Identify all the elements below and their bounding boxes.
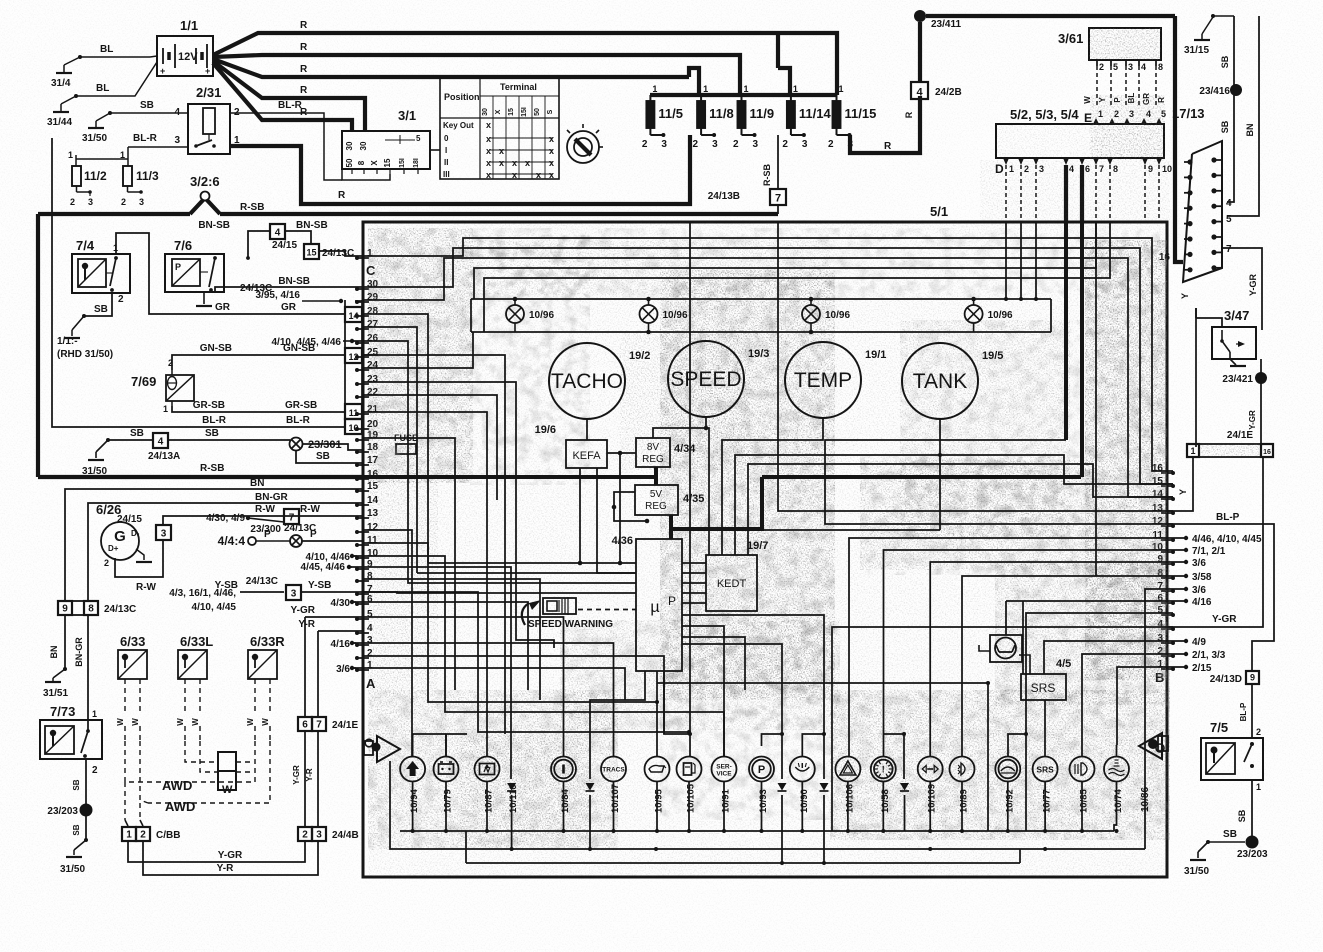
wire SB to 31/50 bl: [60, 816, 88, 875]
wire pin7L int: [363, 592, 691, 734]
svg-text:P: P: [758, 764, 765, 776]
svg-text:1: 1: [652, 84, 657, 94]
svg-text:23/203: 23/203: [47, 806, 78, 817]
svg-text:GN-SB: GN-SB: [200, 343, 232, 354]
bus dots: [510, 847, 1048, 851]
module KEDT 19/7: [706, 540, 768, 611]
wire Y left loop: [1180, 293, 1196, 447]
wire BL-R pin20: [202, 415, 363, 427]
lamp feed jogs at top: [413, 732, 1117, 779]
svg-text:9: 9: [62, 604, 68, 615]
svg-text:3/95, 4/16: 3/95, 4/16: [256, 290, 301, 301]
svg-text:R-W: R-W: [300, 504, 321, 515]
wire GN-SB pin25: [172, 343, 378, 370]
svg-text:10/86: 10/86: [1140, 787, 1151, 812]
3/61 pin 8: [1156, 60, 1163, 108]
sensor 6/33L: [178, 634, 213, 679]
wire 3/1 outline: [342, 169, 390, 180]
svg-text:2: 2: [104, 558, 109, 568]
wire Y-GR bottom: [128, 841, 305, 862]
wire 4/4:4 P: [218, 524, 363, 548]
node 3/2:6: [190, 174, 220, 214]
svg-text:GR-SB: GR-SB: [285, 400, 317, 411]
svg-text:11/2: 11/2: [84, 169, 107, 183]
svg-text:2: 2: [1099, 62, 1104, 72]
svg-text:BN-SB: BN-SB: [296, 220, 328, 231]
indicator lamp 10/105: [677, 757, 702, 814]
wire pin8L int: [363, 579, 540, 700]
svg-text:2/1, 3/3: 2/1, 3/3: [1192, 650, 1226, 661]
connector 24/13C 7: [284, 509, 316, 534]
warning lamp bus upper: [471, 299, 1051, 332]
svg-text:3: 3: [291, 589, 297, 600]
svg-text:µ: µ: [650, 599, 659, 616]
svg-text:Y-R: Y-R: [217, 863, 234, 874]
svg-text:9: 9: [1250, 673, 1255, 683]
svg-text:7: 7: [289, 513, 295, 524]
svg-text:30: 30: [359, 141, 368, 150]
wire loop D7 upper: [474, 222, 1096, 299]
wire Y-GR 24/1E16 to pin4: [1167, 457, 1263, 627]
svg-text:31/51: 31/51: [43, 688, 68, 699]
svg-text:10/58: 10/58: [880, 789, 891, 813]
indicator lamp 10/92: [995, 757, 1020, 814]
svg-text:BN: BN: [250, 478, 264, 489]
svg-text:15I: 15I: [521, 107, 528, 117]
svg-text:10/95: 10/95: [654, 789, 665, 813]
ground 31/50 top: [82, 111, 112, 144]
svg-text:TRACS: TRACS: [602, 767, 625, 774]
module KEFA 19/6: [535, 424, 607, 468]
svg-text:10/87: 10/87: [484, 789, 495, 813]
svg-text:SB: SB: [72, 824, 81, 835]
svg-text:4/46, 4/10, 4/45: 4/46, 4/10, 4/45: [1192, 534, 1262, 545]
wire TACHO to KEFA: [586, 418, 588, 440]
svg-text:+: +: [205, 66, 210, 76]
svg-text:4: 4: [1226, 198, 1232, 209]
svg-text:3: 3: [1128, 62, 1133, 72]
wire KEFA out A: [578, 468, 636, 565]
wire Y-SB pin7: [215, 576, 284, 592]
wire Y 3/47 up: [1196, 318, 1222, 327]
svg-text:+: +: [160, 66, 165, 76]
wire uP bottom 2: [656, 671, 658, 757]
right pin stub references: [1173, 534, 1262, 674]
node 23/421: [1222, 359, 1267, 444]
svg-text:X: X: [495, 109, 502, 114]
AWD dashed routing: [125, 741, 270, 826]
svg-text:24/13A: 24/13A: [148, 451, 180, 462]
svg-text:3: 3: [316, 830, 322, 841]
svg-text:3: 3: [174, 135, 180, 146]
svg-text:24/13D: 24/13D: [1210, 674, 1242, 685]
wire pin19 int: [363, 438, 455, 690]
transistor amplifier: [979, 601, 1022, 662]
svg-text:4/30: 4/30: [331, 598, 351, 609]
wire uP in 563: [428, 562, 580, 564]
svg-text:4/4:4: 4/4:4: [218, 534, 246, 548]
svg-text:7: 7: [316, 720, 322, 731]
svg-text:KEDT: KEDT: [717, 578, 747, 590]
wire loop pin1 to pin16: [363, 238, 1173, 471]
feed jog fuse 11/14: [778, 33, 790, 95]
svg-text:50: 50: [345, 158, 354, 167]
svg-text:3: 3: [802, 139, 808, 150]
indicator lamp 10/94: [400, 757, 425, 814]
svg-text:II: II: [444, 158, 448, 167]
svg-text:1: 1: [68, 150, 73, 160]
svg-text:SB: SB: [1237, 809, 1247, 822]
wire KEDT riser SPEED: [706, 428, 709, 555]
wire R-SB 11/14 drop: [762, 135, 778, 188]
svg-text:GN-SB: GN-SB: [283, 343, 315, 354]
svg-text:5: 5: [1113, 62, 1118, 72]
wire BN-SB to 24/13C15: [285, 220, 328, 244]
wire x620 drop: [618, 453, 623, 565]
svg-text:SRS: SRS: [1036, 765, 1054, 775]
wire KEDT riser TEMP: [722, 417, 823, 555]
svg-text:R-W: R-W: [136, 582, 157, 593]
svg-text:SB: SB: [1223, 829, 1237, 840]
svg-text:x: x: [549, 146, 554, 156]
svg-text:3: 3: [712, 139, 718, 150]
svg-text:7/6: 7/6: [174, 238, 192, 253]
svg-text:!: !: [882, 765, 885, 775]
wire pin10 int: [884, 550, 1174, 757]
svg-text:6/33L: 6/33L: [180, 634, 213, 649]
svg-text:1: 1: [120, 150, 125, 160]
svg-text:W: W: [131, 718, 140, 726]
svg-text:Y-R: Y-R: [298, 619, 315, 630]
generator 6/26: [96, 502, 140, 568]
svg-text:BL-R: BL-R: [286, 415, 311, 426]
wire BN-SB pin30: [215, 276, 363, 292]
wire D2 interior: [1019, 222, 1023, 301]
svg-text:10/77: 10/77: [1042, 789, 1053, 813]
lamp top feed stubs: [413, 756, 1117, 758]
svg-text:SB: SB: [205, 428, 219, 439]
wire BN to 31/51: [43, 615, 68, 699]
wire pin5L int: [363, 617, 564, 757]
component 7/73: [40, 704, 102, 776]
wire SB to 23/301: [168, 428, 290, 440]
wire SB 24/13A: [82, 428, 153, 477]
component 7/5: [1201, 720, 1263, 792]
svg-text:24/1E: 24/1E: [332, 720, 358, 731]
svg-text:AWD: AWD: [162, 778, 192, 793]
wire R-SB interior pin13: [778, 222, 1173, 511]
svg-text:R-SB: R-SB: [240, 202, 264, 213]
wire 11/8 interior drop: [689, 222, 691, 757]
wire 23/301 to pin17: [296, 450, 363, 463]
svg-text:1: 1: [1190, 446, 1195, 456]
wire SB to 31/50 br: [1184, 829, 1245, 877]
svg-text:23/411: 23/411: [931, 19, 961, 30]
scan noise texture: [368, 95, 1170, 877]
indicator arrow left marker: [364, 736, 400, 762]
ground 31/4: [51, 55, 82, 89]
warning lamp 10/96: [506, 297, 554, 332]
wire 7/6 gnd: [196, 292, 212, 306]
svg-text:4/5: 4/5: [1056, 658, 1071, 670]
svg-text:2: 2: [1256, 727, 1261, 737]
svg-text:III: III: [443, 170, 450, 179]
svg-text:SB: SB: [316, 451, 330, 462]
wire D6 thick drop: [1080, 222, 1084, 477]
wire loop D8 upper: [484, 222, 1110, 332]
svg-text:x: x: [549, 158, 554, 168]
wire bottom link 683: [657, 681, 990, 831]
svg-text:2: 2: [118, 294, 124, 305]
svg-text:1: 1: [744, 84, 749, 94]
svg-text:W: W: [176, 718, 185, 726]
wire thick bus pin16: [363, 475, 657, 479]
indicator lamp 10/87: [475, 757, 500, 814]
svg-text:23/300: 23/300: [250, 524, 281, 535]
svg-text:SB: SB: [94, 304, 108, 315]
ignition key symbol: [567, 124, 603, 163]
svg-text:SB: SB: [130, 428, 144, 439]
wire pin24 int: [363, 332, 473, 368]
wire R battery feed 1: [213, 20, 837, 95]
svg-text:10/74: 10/74: [1113, 789, 1124, 813]
wire pin1L int: [363, 668, 625, 700]
svg-text:4/34: 4/34: [674, 443, 696, 455]
wire R thick to 17/13: [1175, 16, 1183, 262]
svg-text:7/5: 7/5: [1210, 720, 1228, 735]
svg-text:4/30, 4/9: 4/30, 4/9: [206, 513, 245, 524]
battery 1/1: [157, 18, 213, 76]
svg-text:24/4B: 24/4B: [332, 830, 359, 841]
svg-text:23/203: 23/203: [1237, 849, 1268, 860]
svg-text:SER-: SER-: [716, 764, 732, 771]
wire BL to 31/44: [76, 62, 157, 96]
wire 6/26 RW loop: [115, 539, 163, 593]
svg-text:x: x: [512, 158, 517, 168]
wire SPEED to 8VREG: [653, 416, 708, 438]
svg-text:Key Out: Key Out: [443, 121, 474, 130]
sensor 6/33: [118, 634, 147, 679]
wire SB 7/73 to 23/203: [72, 759, 86, 806]
wire R battery feed 2: [213, 42, 740, 95]
gauge TACHO 19/2: [549, 343, 650, 419]
main box 5/1: [363, 204, 1167, 877]
svg-text:24/13C: 24/13C: [104, 604, 136, 615]
svg-text:2: 2: [642, 139, 648, 150]
right pin column labels: [1152, 463, 1175, 685]
svg-text:4/45, 4/46: 4/45, 4/46: [301, 562, 346, 573]
svg-text:11/9: 11/9: [750, 106, 775, 121]
indicator lamp 10/106: [835, 757, 860, 814]
svg-text:10/90: 10/90: [799, 789, 810, 813]
svg-text:x: x: [536, 170, 541, 180]
svg-text:GR: GR: [215, 302, 231, 313]
wire 3/6 stub pin1: [336, 664, 363, 675]
svg-text:Y-GR: Y-GR: [1248, 274, 1258, 297]
wire uP in 593: [363, 592, 636, 593]
svg-text:6/33: 6/33: [120, 634, 145, 649]
wire pin25 int: [363, 355, 505, 734]
svg-text:x: x: [486, 158, 491, 168]
connector 24/15 4: [270, 224, 297, 251]
svg-text:15: 15: [306, 248, 316, 258]
wire 4/30 4/9 stub: [206, 513, 284, 524]
indicator arrow right 10/86: [1139, 733, 1168, 812]
wire transistor to SRS: [1019, 655, 1030, 674]
svg-text:1: 1: [163, 404, 168, 414]
svg-text:31/15: 31/15: [1184, 45, 1209, 56]
svg-text:6/33R: 6/33R: [250, 634, 285, 649]
svg-text:BN-GR: BN-GR: [255, 492, 289, 503]
svg-text:Position: Position: [444, 92, 480, 102]
svg-text:P: P: [310, 529, 317, 540]
svg-text:3/6: 3/6: [336, 664, 350, 675]
svg-text:5V: 5V: [650, 489, 663, 500]
svg-text:31/50: 31/50: [60, 864, 85, 875]
svg-text:P: P: [175, 262, 181, 272]
speed warning buzzer: [522, 597, 636, 630]
svg-text:10/85: 10/85: [1079, 789, 1090, 813]
connector 24/13C 3: [286, 580, 363, 600]
svg-text:4: 4: [158, 437, 164, 448]
svg-text:TEMP: TEMP: [794, 369, 852, 392]
sensor 6/33R: [248, 634, 285, 679]
svg-text:REG: REG: [645, 501, 667, 512]
wire 10/110 label: [508, 784, 519, 813]
svg-text:3: 3: [88, 197, 93, 207]
wire pin12 int: [825, 440, 1173, 524]
svg-text:4/35: 4/35: [683, 493, 704, 505]
svg-text:x: x: [486, 134, 491, 144]
svg-text:1: 1: [126, 830, 132, 841]
wire uP to KEDT 2: [682, 572, 706, 574]
svg-text:7/1, 2/1: 7/1, 2/1: [1192, 546, 1226, 557]
module 3/1: [342, 108, 440, 174]
wire BL-R 2/31 to 3/1: [230, 100, 342, 180]
component 7/69: [131, 358, 194, 414]
wire 5VREG drop thick: [669, 515, 673, 529]
gauge bus: [471, 299, 1051, 334]
diode on wire x824: [820, 783, 829, 791]
svg-text:2: 2: [121, 197, 126, 207]
svg-text:R: R: [300, 85, 308, 96]
svg-text:SB: SB: [1220, 55, 1230, 68]
svg-text:10/92: 10/92: [1004, 789, 1015, 813]
diode on wire x904: [900, 783, 909, 791]
svg-text:10/96: 10/96: [988, 310, 1013, 321]
wire SB to 2/31: [110, 100, 188, 113]
svg-text:x: x: [549, 134, 554, 144]
wire R from 2/31 pin 1: [230, 135, 690, 204]
fuse 11/8: [693, 84, 734, 150]
wire 4/16 stub pin3: [331, 639, 363, 650]
svg-text:24/2B: 24/2B: [935, 87, 962, 98]
indicator lamp 10/58: [871, 757, 896, 814]
wire BN-GR to 7/73: [74, 615, 88, 731]
svg-text:6: 6: [302, 720, 308, 731]
svg-text:4/16: 4/16: [331, 639, 351, 650]
wire pin1 int: [1117, 667, 1173, 745]
component 7/6: [165, 238, 224, 292]
bus diode drops: [512, 795, 905, 863]
indicator lamp 10/74: [1104, 757, 1129, 814]
wire 4/10 4/46 stub pin10: [306, 552, 363, 563]
wire 4/45 4/46 stub pin9: [301, 562, 363, 573]
svg-text:GR-SB: GR-SB: [193, 400, 225, 411]
wire R battery feed 3: [213, 59, 699, 95]
connector 24/13D: [1210, 671, 1259, 738]
svg-text:8: 8: [357, 160, 366, 165]
svg-text:Y-GR: Y-GR: [1212, 614, 1237, 625]
svg-text:24/15: 24/15: [117, 514, 142, 525]
indicator lamp 10/89: [950, 757, 975, 814]
wire uP out 637: [682, 637, 745, 690]
svg-text:24/13C: 24/13C: [246, 576, 278, 587]
wire R-W pin13: [163, 504, 363, 525]
svg-text:10/91: 10/91: [721, 789, 732, 813]
svg-text:SRS: SRS: [1031, 681, 1056, 695]
module 3/61: [1058, 28, 1161, 60]
svg-text:19/6: 19/6: [535, 424, 556, 436]
indicator lamp 10/85: [1070, 757, 1095, 814]
warning lamp 10/96: [965, 297, 1013, 332]
svg-text:4: 4: [916, 87, 923, 99]
svg-text:7: 7: [775, 193, 781, 205]
svg-text:2: 2: [733, 139, 739, 150]
connector 24/4B: [298, 827, 359, 841]
svg-text:10/110: 10/110: [508, 784, 519, 813]
wire uP to KEDT 4: [682, 592, 706, 594]
wire BN pin15: [65, 478, 363, 601]
lamp bottom drops to bus: [411, 782, 1119, 834]
ground 31/15: [1184, 14, 1215, 56]
gauge SPEED 19/3: [668, 341, 769, 417]
svg-text:x: x: [525, 158, 530, 168]
gauge TEMP 19/1: [785, 342, 886, 418]
indicator lamp 10/95: [645, 757, 670, 814]
svg-text:BN-SB: BN-SB: [198, 220, 230, 231]
wire BL to 31/4: [80, 44, 157, 57]
svg-text:23/416: 23/416: [1199, 86, 1230, 97]
strip box 14: [345, 307, 362, 322]
fuse symbol interior: [394, 433, 418, 454]
svg-text:5: 5: [416, 134, 421, 143]
17/13 pins: [1159, 157, 1232, 272]
svg-text:1: 1: [92, 709, 97, 719]
component 3/47: [1212, 308, 1256, 366]
svg-text:3: 3: [139, 197, 144, 207]
wire thick right bus: [671, 477, 1081, 529]
wire pin5 int: [1008, 613, 1173, 831]
svg-text:3/6: 3/6: [1192, 585, 1206, 596]
wire D7 drop: [1095, 222, 1097, 576]
connector 24/2B: [911, 82, 962, 99]
svg-text:GR: GR: [281, 302, 297, 313]
connector 17/13: [1172, 106, 1222, 282]
svg-text:W: W: [116, 718, 125, 726]
svg-text:X: X: [370, 160, 379, 166]
wire pin6L int: [363, 602, 528, 690]
svg-text:3/1: 3/1: [398, 108, 416, 123]
fuse 11/9: [733, 84, 774, 150]
svg-text:W: W: [246, 718, 255, 726]
wire 4/30 stub pin6: [331, 598, 363, 609]
wire R top to right edge: [926, 14, 1175, 18]
svg-text:3/6: 3/6: [1192, 558, 1206, 569]
svg-text:4/16: 4/16: [1192, 597, 1212, 608]
svg-text:5/1: 5/1: [930, 204, 948, 219]
node 23/203 left: [47, 804, 92, 818]
